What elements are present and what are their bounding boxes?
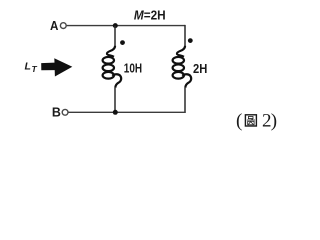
svg-text:): ) bbox=[271, 110, 277, 131]
inductor L2 loop 3 bbox=[173, 72, 184, 79]
svg-text:T: T bbox=[32, 64, 38, 74]
label LT bbox=[25, 60, 38, 74]
terminal B circle bbox=[62, 109, 68, 115]
inductor L2 bottom hook (cursive tail) bbox=[182, 74, 191, 88]
svg-text:2H: 2H bbox=[193, 61, 207, 76]
svg-text:(: ( bbox=[236, 110, 242, 131]
inductor L1 loop 1 bbox=[103, 57, 114, 64]
inductor L2 top hook bbox=[177, 46, 185, 57]
svg-text:A: A bbox=[50, 18, 59, 33]
svg-text:B: B bbox=[52, 105, 61, 120]
node junction dot top (left branch) bbox=[113, 23, 118, 28]
inductor L1 loop 3 bbox=[103, 72, 114, 79]
wire left branch top vertical bbox=[114, 26, 116, 47]
wire bottom horizontal B to right branch bbox=[68, 111, 185, 113]
node junction dot bottom (left branch) bbox=[113, 110, 118, 115]
inductor L1 top hook bbox=[107, 46, 115, 57]
arrow LT direction (block arrow) bbox=[41, 58, 72, 76]
dot polarity mark left inductor bbox=[120, 40, 125, 45]
wire top horizontal A to right branch bbox=[67, 25, 185, 27]
svg-text:10H: 10H bbox=[124, 60, 142, 75]
caption CJK character tu (figure) drawn bbox=[245, 115, 256, 126]
inductor L2 loop 2 bbox=[173, 64, 184, 71]
wire right branch top vertical bbox=[184, 25, 186, 46]
inductor L1 bottom hook (cursive tail) bbox=[112, 74, 121, 88]
svg-text:L: L bbox=[25, 60, 31, 72]
dot polarity mark right inductor bbox=[188, 38, 193, 43]
terminal A circle bbox=[60, 23, 66, 29]
wire left branch bottom vertical bbox=[114, 88, 116, 113]
inductor L2 loop 1 bbox=[173, 57, 184, 64]
inductor L1 loop 2 bbox=[103, 64, 114, 71]
svg-text:M=2H: M=2H bbox=[134, 8, 166, 23]
wire right branch bottom vertical bbox=[184, 88, 186, 113]
